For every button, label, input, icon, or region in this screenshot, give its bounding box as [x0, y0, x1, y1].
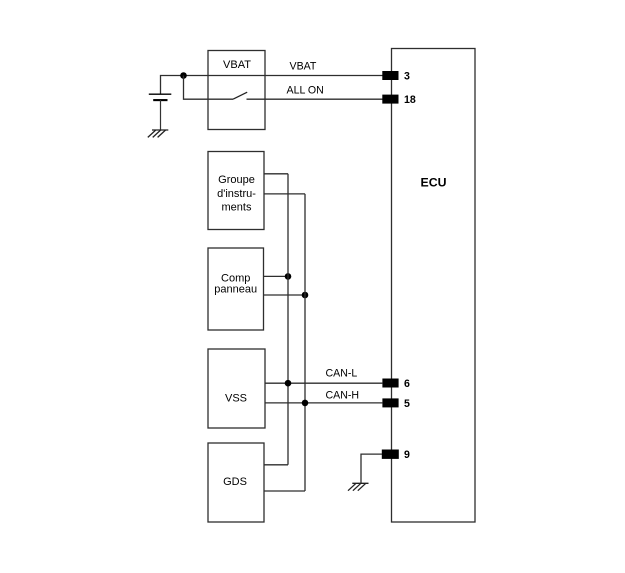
svg-text:5: 5 — [404, 398, 410, 410]
pin 6 number — [404, 378, 410, 390]
ECU box U1 — [392, 49, 476, 523]
wire bus 2 vertical — [304, 194, 306, 491]
label ALL ON (wire label) — [287, 84, 324, 96]
svg-text:GDS: GDS — [223, 476, 247, 488]
pin 6 terminal — [382, 379, 398, 388]
node junction dot bus2/CAN-H — [302, 400, 309, 407]
wire bus 1 vertical — [287, 174, 289, 465]
node junction dot bus1/CAN-L — [285, 380, 292, 387]
svg-text:d'instru-: d'instru- — [217, 188, 256, 200]
VSS label — [225, 392, 247, 404]
wire CAN-L (VSS to pin 6) — [265, 382, 382, 384]
svg-text:Groupe: Groupe — [218, 174, 255, 186]
wire ALL ON (switch to pin 18) — [247, 98, 383, 100]
wire ALL ON drop from junction — [184, 76, 234, 100]
pin 18 terminal — [382, 95, 398, 104]
VBAT box label — [223, 59, 251, 71]
pin 9 terminal — [382, 450, 399, 459]
Groupe d'instruments box — [208, 152, 264, 230]
pin 18 number — [404, 94, 416, 106]
svg-text:ALL ON: ALL ON — [287, 84, 324, 96]
wire Comp panneau to bus 1 — [264, 275, 289, 277]
label VBAT (wire label) — [290, 60, 317, 72]
pin 9 number — [404, 449, 410, 461]
GDS box — [208, 443, 264, 522]
svg-text:VBAT: VBAT — [223, 59, 251, 71]
svg-text:CAN-H: CAN-H — [326, 389, 360, 401]
svg-text:ECU: ECU — [421, 176, 447, 190]
pin 3 terminal — [382, 71, 398, 80]
VSS box — [208, 349, 265, 428]
Comp panneau box — [208, 248, 264, 330]
pin 3 number — [404, 70, 410, 82]
label CAN-H — [326, 389, 360, 401]
GDS label — [223, 476, 247, 488]
svg-text:Comp: Comp — [221, 272, 250, 284]
svg-text:6: 6 — [404, 378, 410, 390]
pin 5 terminal — [382, 398, 398, 407]
svg-text:9: 9 — [404, 449, 410, 461]
svg-text:3: 3 — [404, 70, 410, 82]
Groupe d'instruments label — [217, 174, 256, 213]
svg-text:18: 18 — [404, 94, 416, 106]
VBAT source box B1 — [208, 51, 265, 130]
wire Groupe to bus 2 — [264, 193, 305, 195]
svg-text:CAN-L: CAN-L — [326, 368, 358, 380]
svg-text:panneau: panneau — [214, 284, 257, 296]
pin 5 number — [404, 398, 410, 410]
wire Groupe to bus 1 — [264, 173, 288, 175]
wire CAN-H (VSS to pin 5) — [265, 402, 382, 404]
Comp panneau label — [214, 272, 257, 295]
battery BT1 — [149, 94, 172, 130]
node junction dot bus1/Comp — [285, 273, 292, 280]
svg-text:ments: ments — [222, 201, 252, 213]
wire GDS to bus 2 — [264, 490, 305, 492]
switch S1 blade — [233, 92, 247, 99]
label CAN-L — [326, 368, 358, 380]
wire VBAT net (battery to pin 3) — [161, 76, 383, 95]
wire Comp panneau to bus 2 — [264, 294, 306, 296]
ground G1 (battery ground) — [148, 130, 169, 137]
wire pin 9 to ground — [361, 454, 382, 483]
node junction dot on VBAT wire — [180, 72, 187, 79]
wire GDS to bus 1 — [264, 464, 288, 466]
ECU label — [421, 176, 447, 190]
node junction dot bus2/Comp — [302, 292, 309, 299]
ground G2 (ECU ground at pin 9) — [348, 483, 369, 490]
svg-text:VSS: VSS — [225, 392, 247, 404]
svg-text:VBAT: VBAT — [290, 60, 317, 72]
